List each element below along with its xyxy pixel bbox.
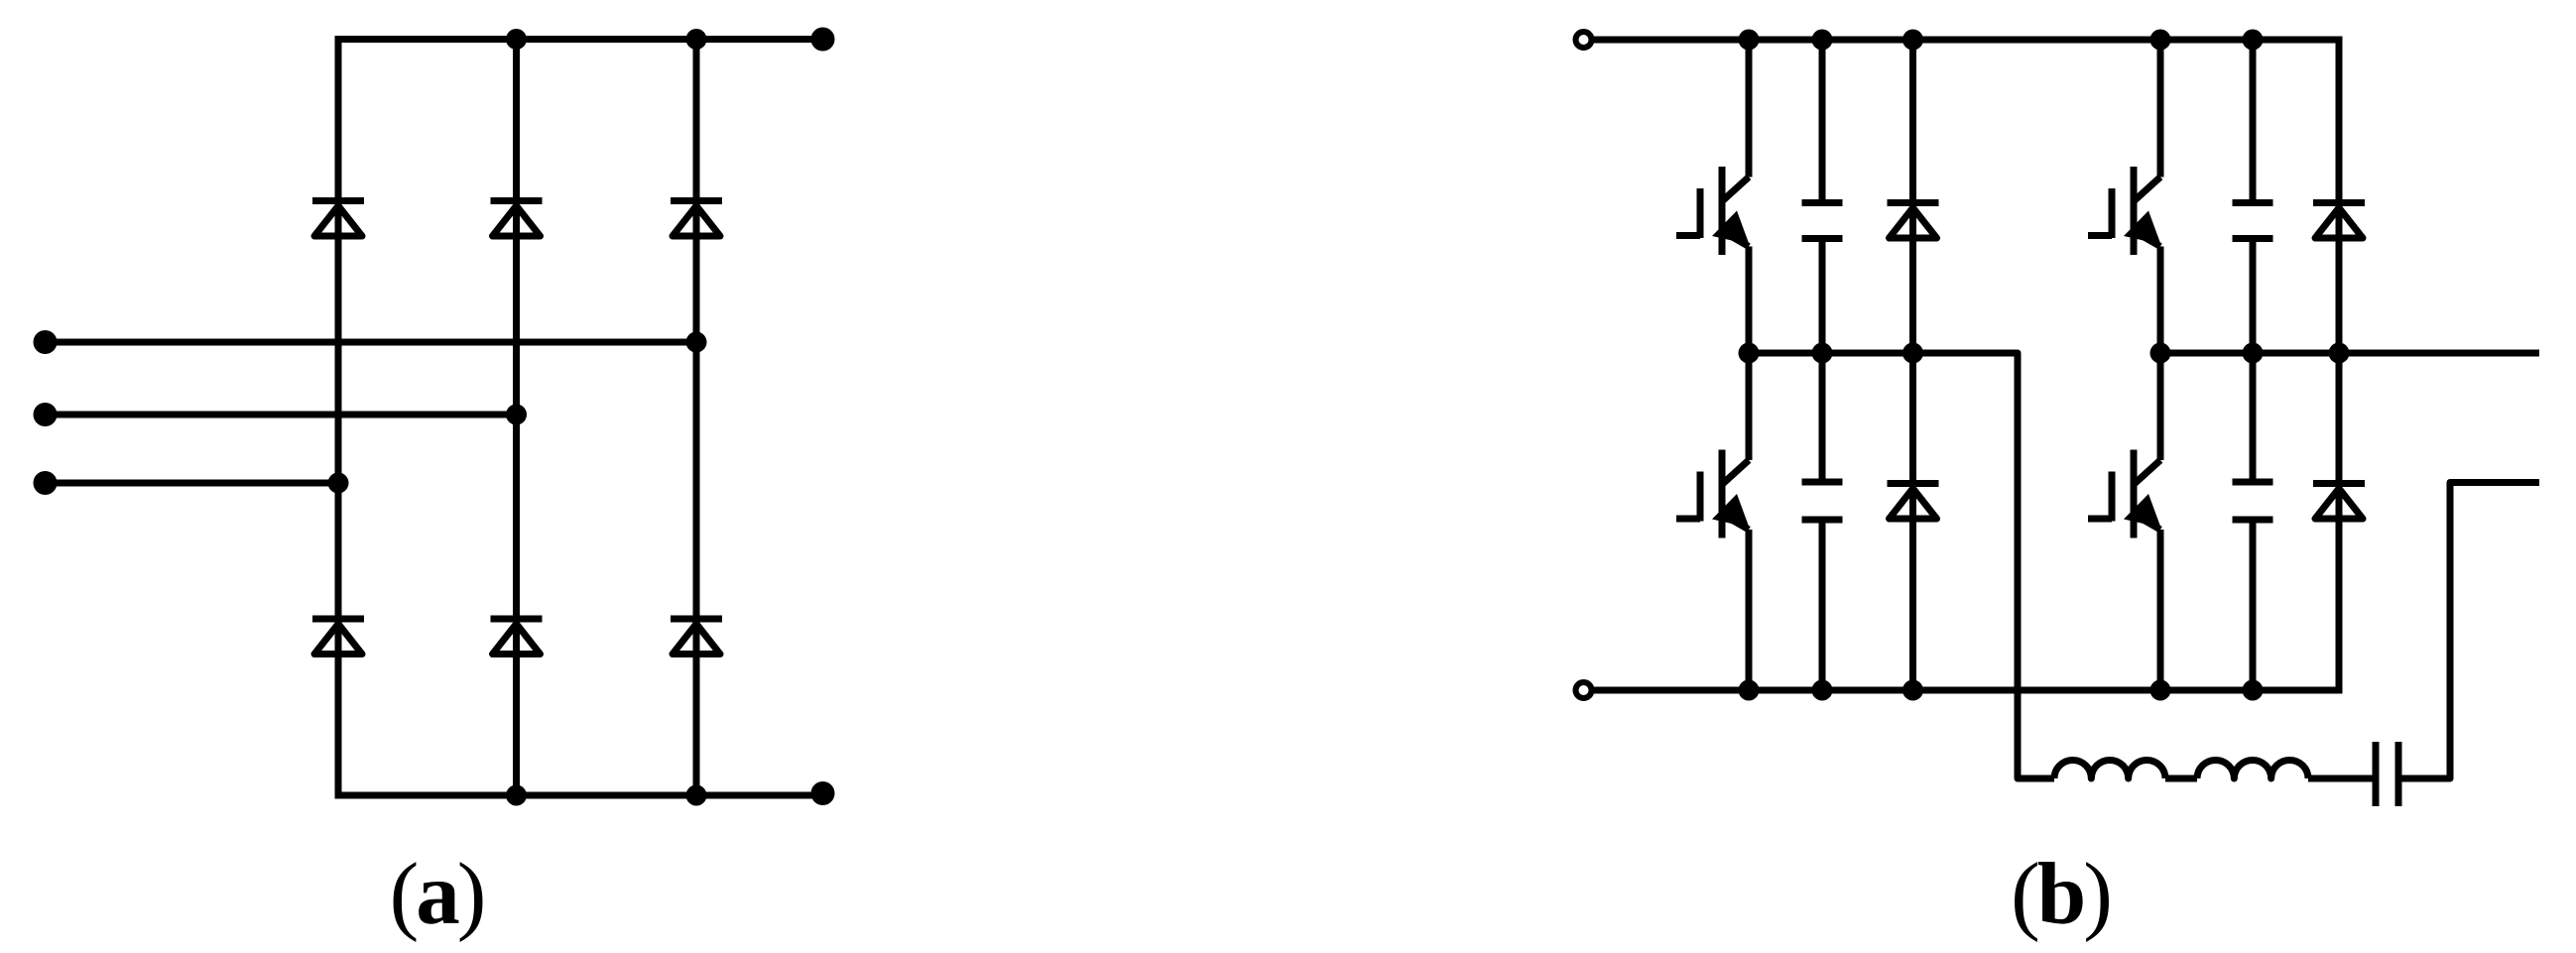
node: phase C to leg1 junction (a) [328, 473, 349, 494]
svg-text:(a): (a) [390, 846, 484, 943]
wire: snubber capacitor leg phase 1 (b) [1819, 40, 1826, 690]
node: midpoint junction diode leg phase2 (b) [2329, 343, 2350, 364]
node: midpoint junction cap leg phase1 (b) [1812, 343, 1833, 364]
wire: AC input phase A (a) [46, 339, 697, 346]
wire: series capacitor to output riser and top output lead (b) [2402, 483, 2540, 779]
capacitor C1 (snubber, phase 1 upper) [1802, 203, 1843, 239]
node: midpoint junction IGBT leg phase1 (b) [1739, 343, 1760, 364]
diode D2 (a, bottom of leg 1) [312, 619, 364, 655]
diode D8 (b, phase 1 lower) [1888, 484, 1939, 520]
svg-text:(b): (b) [2011, 846, 2110, 943]
diode D3 (a, top of leg 2) [491, 201, 543, 237]
transistor Q1 (IGBT, phase 1 upper) [1676, 167, 1750, 255]
node: bottom rail junction diode leg phase1 (b) [1902, 680, 1923, 701]
wire: IGBT leg phase 2 (b) [2157, 40, 2164, 690]
wire: DC bus bottom rail (b) [1594, 687, 2343, 694]
capacitor C4 (snubber, phase 2 lower) [2233, 482, 2273, 520]
diode D4 (a, bottom of leg 2) [491, 619, 543, 655]
diode D6 (a, bottom of leg 3) [671, 619, 722, 655]
node: phase B to leg2 junction (a) [506, 405, 527, 425]
node: midpoint junction diode leg phase1 (b) [1902, 343, 1923, 364]
wire: phase 1 midpoint node row, drop and filter input (b) [1749, 353, 2054, 778]
node: bottom rail junction cap leg phase2 (b) [2243, 680, 2264, 701]
node: top rail junction cap leg phase2 (b) [2243, 30, 2264, 51]
node: bottom rail junction cap leg phase1 (b) [1812, 680, 1833, 701]
wire: AC input phase C (a) [46, 480, 339, 487]
inductor L1 (output filter choke, b) [2054, 760, 2308, 778]
transistor Q3 (IGBT, phase 2 upper) [2088, 167, 2161, 255]
wire: DC bus top rail (b) [1594, 37, 2343, 44]
diode D10 (b, phase 2 lower) [2313, 484, 2365, 520]
node: DC+ input open terminal (b) [1576, 32, 1592, 48]
diode D5 (a, top of leg 3) [671, 201, 722, 237]
wire: DC negative bottom rail of rectifier (a) [335, 792, 824, 799]
node: AC input terminal B (a) [34, 403, 58, 426]
node: top rail junction IGBT leg phase1 (b) [1739, 30, 1760, 51]
node: midpoint junction IGBT leg phase2 (b) [2150, 343, 2171, 364]
wire: rectifier leg 2 vertical (a) [513, 40, 520, 796]
node: top rail junction diode leg phase1 (b) [1902, 30, 1923, 51]
diode D1 (a, top of leg 1) [312, 201, 364, 237]
node: top rail junction cap leg phase1 (b) [1812, 30, 1833, 51]
node: AC input terminal C (a) [34, 471, 58, 495]
node: top rail junction leg2 (a) [506, 29, 527, 50]
wire: phase 2 midpoint node row to output (b) [2160, 350, 2539, 357]
node: top rail junction IGBT leg phase2 (b) [2150, 30, 2171, 51]
transistor Q4 (IGBT, phase 2 lower) [2088, 450, 2161, 538]
capacitor C3 (snubber, phase 2 upper) [2233, 203, 2273, 239]
node: top rail junction leg3 (a) [686, 29, 707, 50]
wire: rectifier leg 1 vertical (a) [335, 36, 342, 799]
wire: clamp diode leg phase 1 (b) [1909, 40, 1916, 690]
node: bottom rail junction IGBT leg phase2 (b) [2150, 680, 2171, 701]
transistor Q2 (IGBT, phase 1 lower) [1676, 450, 1750, 538]
capacitor C2 (snubber, phase 1 lower) [1802, 482, 1843, 520]
wire: inductor to series capacitor (b) [2308, 775, 2373, 782]
wire: rectifier leg 3 vertical (a) [693, 40, 700, 796]
diode D7 (b, phase 1 upper) [1888, 203, 1939, 239]
capacitor C5 (series output capacitor, b) [2376, 742, 2398, 806]
wire: IGBT leg phase 1 upper segment (b) [1746, 40, 1753, 690]
node: AC input terminal A (a) [34, 330, 58, 354]
node: phase A to leg3 junction (a) [686, 332, 707, 353]
wire: AC input phase B (a) [46, 412, 517, 418]
wire: snubber capacitor leg phase 2 (b) [2250, 40, 2257, 690]
node: DC- input open terminal (b) [1576, 682, 1592, 698]
wire: clamp diode leg phase 2 (b) [2336, 37, 2343, 694]
node: midpoint junction cap leg phase2 (b) [2243, 343, 2264, 364]
node: bottom rail junction IGBT leg phase1 (b) [1739, 680, 1760, 701]
diode D9 (b, phase 2 upper) [2313, 203, 2365, 239]
node: bottom rail junction leg3 (a) [686, 785, 707, 806]
node: DC+ terminal (a) [811, 28, 835, 52]
wire: DC positive top rail of rectifier (a) [335, 36, 824, 43]
node: DC- terminal (a) [811, 781, 835, 805]
node: bottom rail junction leg2 (a) [506, 785, 527, 806]
